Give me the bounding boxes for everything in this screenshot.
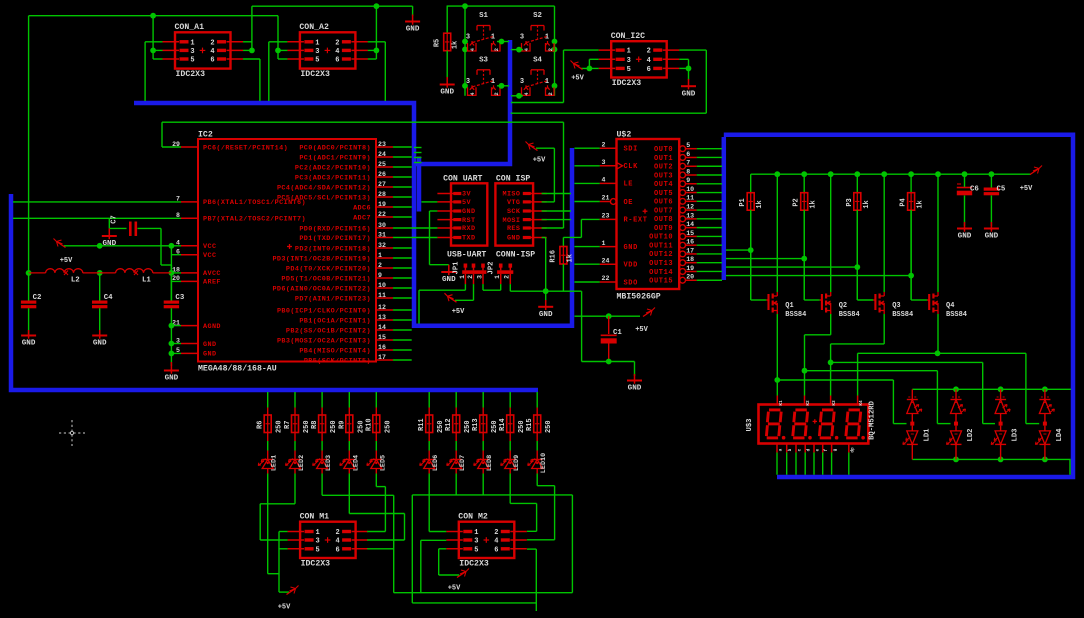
svg-text:7: 7: [686, 160, 690, 167]
svg-text:PC3(ADC3/PCINT11): PC3(ADC3/PCINT11): [295, 174, 371, 182]
svg-text:VCC: VCC: [203, 252, 216, 260]
svg-text:LED1: LED1: [271, 455, 279, 471]
svg-text:5: 5: [627, 66, 631, 74]
svg-text:R6: R6: [257, 421, 265, 429]
svg-text:IDC2X3: IDC2X3: [301, 559, 331, 568]
svg-text:250: 250: [464, 420, 472, 433]
svg-text:GND: GND: [203, 341, 216, 349]
svg-text:C2: C2: [33, 294, 42, 302]
svg-text:1: 1: [315, 529, 319, 537]
svg-text:OUT9: OUT9: [654, 225, 673, 233]
svg-text:16: 16: [378, 344, 386, 351]
svg-text:PB3(MOSI/OC2A/PCINT3): PB3(MOSI/OC2A/PCINT3): [277, 337, 371, 345]
svg-text:4: 4: [210, 48, 214, 56]
svg-text:C6: C6: [970, 186, 979, 194]
svg-text:SDI: SDI: [624, 146, 638, 154]
svg-text:+5V: +5V: [635, 326, 648, 334]
svg-text:C5: C5: [997, 186, 1006, 194]
svg-text:BQ-M512RD: BQ-M512RD: [869, 400, 877, 440]
svg-text:b: b: [788, 448, 793, 451]
svg-text:2: 2: [493, 47, 500, 51]
svg-text:4: 4: [602, 177, 606, 184]
svg-text:GND: GND: [507, 235, 520, 243]
svg-text:18: 18: [686, 256, 694, 263]
svg-text:Q2: Q2: [839, 302, 847, 310]
svg-text:GND: GND: [682, 90, 696, 98]
svg-text:GND: GND: [985, 233, 999, 241]
svg-text:C7: C7: [111, 215, 119, 223]
svg-text:+5V: +5V: [452, 308, 465, 316]
svg-text:5: 5: [190, 57, 194, 65]
svg-text:ADC6: ADC6: [353, 204, 371, 212]
svg-text:SDO: SDO: [624, 279, 638, 287]
svg-text:CON M1: CON M1: [300, 513, 330, 522]
svg-text:IDC2X3: IDC2X3: [612, 79, 642, 88]
svg-text:2: 2: [335, 39, 339, 47]
svg-text:R9: R9: [338, 421, 346, 429]
svg-text:10: 10: [686, 186, 694, 193]
svg-text:LED9: LED9: [513, 455, 521, 471]
svg-text:12: 12: [686, 203, 694, 210]
svg-text:CON_I2C: CON_I2C: [611, 32, 645, 41]
svg-text:PB7(XTAL2/TOSC2/PCINT7): PB7(XTAL2/TOSC2/PCINT7): [203, 216, 306, 224]
svg-text:PD2(INT0/PCINT18): PD2(INT0/PCINT18): [295, 245, 371, 253]
svg-text:PC1(ADC1/PCINT9): PC1(ADC1/PCINT9): [299, 154, 371, 162]
svg-text:2: 2: [494, 529, 498, 537]
svg-text:K3: K3: [832, 400, 837, 406]
svg-text:+5V: +5V: [448, 585, 461, 593]
svg-text:S2: S2: [533, 12, 542, 20]
svg-text:R8: R8: [311, 421, 319, 429]
svg-text:4: 4: [494, 538, 498, 546]
svg-text:GND: GND: [406, 26, 420, 34]
svg-text:MEGA48/88/168-AU: MEGA48/88/168-AU: [198, 364, 277, 374]
svg-text:LD2: LD2: [967, 429, 975, 442]
svg-text:Q1: Q1: [785, 302, 793, 310]
svg-text:IC2: IC2: [198, 131, 213, 140]
svg-text:CONN-ISP: CONN-ISP: [496, 251, 535, 260]
svg-text:C4: C4: [104, 294, 113, 302]
svg-text:250: 250: [357, 420, 365, 433]
svg-text:LD3: LD3: [1012, 429, 1020, 442]
svg-text:OUT4: OUT4: [654, 181, 673, 189]
svg-text:22: 22: [602, 275, 610, 282]
svg-text:24: 24: [378, 151, 386, 158]
svg-text:BSS84: BSS84: [785, 311, 806, 319]
svg-text:S4: S4: [533, 57, 542, 65]
svg-text:VTG: VTG: [507, 199, 520, 207]
svg-text:R12: R12: [445, 418, 453, 431]
svg-text:1: 1: [474, 529, 478, 537]
svg-text:CLK: CLK: [624, 163, 639, 171]
svg-text:P2: P2: [793, 198, 801, 206]
svg-text:12: 12: [378, 304, 386, 311]
svg-text:32: 32: [378, 242, 386, 249]
svg-text:OUT12: OUT12: [649, 251, 673, 259]
svg-text:PD3(INT1/OC2B/PCINT19): PD3(INT1/OC2B/PCINT19): [272, 255, 371, 263]
svg-text:1k: 1k: [452, 41, 460, 49]
svg-text:OUT5: OUT5: [654, 190, 673, 198]
svg-text:19: 19: [378, 201, 386, 208]
svg-text:R-EXT: R-EXT: [624, 217, 648, 225]
svg-text:AVCC: AVCC: [203, 270, 221, 278]
svg-text:1: 1: [602, 240, 606, 247]
svg-text:VCC: VCC: [203, 243, 216, 251]
svg-text:21: 21: [602, 195, 610, 202]
svg-text:PB2(SS/OC1B/PCINT2): PB2(SS/OC1B/PCINT2): [286, 327, 371, 335]
svg-text:c: c: [798, 448, 803, 451]
svg-text:250: 250: [330, 420, 338, 433]
svg-text:LED2: LED2: [298, 455, 306, 471]
svg-text:GND: GND: [165, 375, 179, 383]
svg-text:1: 1: [315, 39, 319, 47]
svg-text:OUT14: OUT14: [649, 269, 673, 277]
svg-text:GND: GND: [440, 89, 454, 97]
svg-text:CON_A1: CON_A1: [175, 23, 205, 32]
svg-text:Q3: Q3: [892, 302, 900, 310]
svg-text:S1: S1: [479, 12, 488, 20]
svg-text:5: 5: [315, 57, 319, 65]
svg-text:2: 2: [602, 141, 606, 148]
svg-text:g: g: [833, 448, 838, 451]
svg-text:JP2: JP2: [488, 262, 496, 275]
svg-text:26: 26: [378, 171, 386, 178]
svg-text:RST: RST: [462, 217, 475, 225]
svg-text:R15: R15: [526, 418, 534, 431]
svg-text:3: 3: [520, 34, 524, 42]
svg-text:CON_A2: CON_A2: [299, 23, 329, 32]
svg-text:OUT8: OUT8: [654, 216, 673, 224]
svg-text:24: 24: [602, 257, 610, 264]
svg-text:1: 1: [545, 34, 549, 42]
svg-text:OUT6: OUT6: [654, 199, 673, 207]
svg-text:3: 3: [627, 57, 631, 65]
svg-text:USB-UART: USB-UART: [447, 251, 486, 260]
svg-text:9: 9: [378, 272, 382, 279]
svg-text:d: d: [807, 448, 812, 451]
svg-text:4: 4: [523, 92, 530, 96]
svg-text:2: 2: [647, 48, 651, 56]
svg-text:CON UART: CON UART: [443, 174, 482, 183]
svg-text:GND: GND: [628, 385, 642, 393]
svg-text:IDC2X3: IDC2X3: [176, 70, 206, 79]
svg-text:AREF: AREF: [203, 279, 221, 287]
svg-text:4: 4: [335, 48, 339, 56]
svg-text:e: e: [816, 448, 821, 451]
svg-text:OUT0: OUT0: [654, 146, 673, 154]
svg-text:K1: K1: [779, 400, 784, 406]
svg-text:250: 250: [518, 420, 526, 433]
svg-text:6: 6: [647, 66, 651, 74]
svg-text:+5V: +5V: [533, 157, 546, 165]
svg-text:OUT13: OUT13: [649, 260, 673, 268]
svg-text:3V: 3V: [462, 191, 471, 199]
svg-text:1: 1: [491, 78, 495, 86]
svg-text:GND: GND: [462, 208, 475, 216]
svg-text:OUT11: OUT11: [649, 242, 673, 250]
svg-text:R16: R16: [550, 250, 558, 263]
svg-text:Q4: Q4: [946, 302, 954, 310]
svg-text:5V: 5V: [462, 199, 471, 207]
svg-text:1k: 1k: [810, 200, 818, 208]
svg-text:250: 250: [545, 420, 553, 433]
svg-text:6: 6: [686, 151, 690, 158]
svg-text:250: 250: [303, 420, 311, 433]
svg-text:BSS84: BSS84: [892, 311, 913, 319]
svg-text:OUT3: OUT3: [654, 172, 673, 180]
svg-text:1: 1: [459, 275, 466, 279]
svg-text:1: 1: [627, 48, 631, 56]
svg-text:250: 250: [276, 420, 284, 433]
svg-text:31: 31: [378, 231, 386, 238]
svg-text:R11: R11: [418, 418, 426, 431]
svg-text:PD1(TXD/PCINT17): PD1(TXD/PCINT17): [299, 235, 371, 243]
svg-text:GND: GND: [958, 233, 972, 241]
svg-text:CON ISP: CON ISP: [496, 174, 530, 183]
svg-text:250: 250: [437, 420, 445, 433]
svg-text:3: 3: [466, 78, 470, 86]
svg-text:13: 13: [378, 314, 386, 321]
svg-text:U$2: U$2: [617, 130, 632, 140]
svg-text:+5V: +5V: [60, 257, 73, 265]
svg-text:2: 2: [547, 92, 554, 96]
svg-text:3: 3: [315, 538, 319, 546]
svg-text:PC5(ADC5/SCL/PCINT13): PC5(ADC5/SCL/PCINT13): [277, 194, 371, 202]
svg-text:1k: 1k: [567, 254, 575, 262]
svg-text:19: 19: [686, 265, 694, 272]
svg-text:VDD: VDD: [624, 262, 638, 270]
svg-text:MISO: MISO: [502, 191, 520, 199]
svg-text:PB5(SCK/PCINT5): PB5(SCK/PCINT5): [304, 357, 371, 365]
svg-text:R13: R13: [472, 418, 480, 431]
svg-text:R14: R14: [499, 418, 507, 431]
svg-text:5: 5: [315, 546, 319, 554]
svg-text:4: 4: [335, 538, 339, 546]
svg-text:PB4(MISO/PCINT4): PB4(MISO/PCINT4): [299, 347, 371, 355]
svg-text:11: 11: [686, 195, 694, 202]
svg-text:2: 2: [493, 92, 500, 96]
svg-text:PB0(ICP1/CLKO/PCINT0): PB0(ICP1/CLKO/PCINT0): [277, 307, 371, 315]
svg-text:f: f: [824, 448, 829, 451]
svg-text:14: 14: [378, 324, 386, 331]
svg-text:P1: P1: [739, 198, 747, 206]
svg-text:a: a: [779, 448, 784, 451]
svg-text:dp: dp: [850, 447, 855, 453]
svg-text:10: 10: [378, 282, 386, 289]
svg-text:17: 17: [686, 247, 694, 254]
svg-text:R5: R5: [434, 39, 442, 47]
svg-text:14: 14: [686, 221, 694, 228]
svg-text:5: 5: [474, 546, 478, 554]
svg-text:6: 6: [494, 546, 498, 554]
svg-text:6: 6: [335, 57, 339, 65]
svg-text:BSS84: BSS84: [839, 311, 860, 319]
svg-text:PC4(ADC4/SDA/PCINT12): PC4(ADC4/SDA/PCINT12): [277, 184, 371, 192]
svg-text:SCK: SCK: [507, 208, 521, 216]
svg-text:TXD: TXD: [462, 235, 475, 243]
svg-text:2: 2: [504, 275, 511, 279]
svg-text:27: 27: [378, 181, 386, 188]
svg-text:MBI5026GP: MBI5026GP: [617, 293, 661, 302]
svg-text:U$3: U$3: [746, 419, 754, 432]
svg-text:GND: GND: [624, 244, 638, 252]
svg-text:R7: R7: [284, 421, 292, 429]
svg-text:+5V: +5V: [278, 604, 291, 612]
svg-text:PD7(AIN1/PCINT23): PD7(AIN1/PCINT23): [295, 295, 371, 303]
svg-text:AGND: AGND: [203, 323, 221, 331]
svg-text:28: 28: [378, 191, 386, 198]
svg-text:LD4: LD4: [1056, 428, 1064, 442]
svg-text:C3: C3: [175, 294, 184, 302]
svg-text:PB1(OC1A/PCINT1): PB1(OC1A/PCINT1): [299, 317, 371, 325]
svg-text:4: 4: [469, 92, 476, 96]
svg-text:GND: GND: [22, 340, 36, 348]
svg-text:L2: L2: [71, 277, 80, 285]
svg-text:GND: GND: [93, 340, 107, 348]
svg-text:LED6: LED6: [432, 455, 440, 471]
svg-text:CON M2: CON M2: [458, 513, 488, 522]
svg-text:LED4: LED4: [352, 455, 360, 471]
svg-text:LE: LE: [624, 181, 634, 189]
svg-text:1: 1: [190, 39, 194, 47]
svg-text:RES: RES: [507, 225, 520, 233]
svg-text:GND: GND: [442, 276, 456, 284]
svg-text:3: 3: [315, 48, 319, 56]
svg-text:3: 3: [476, 275, 483, 279]
svg-text:P3: P3: [846, 198, 854, 206]
svg-text:GND: GND: [203, 351, 216, 359]
svg-text:20: 20: [686, 274, 694, 281]
svg-text:1: 1: [491, 34, 495, 42]
svg-text:1: 1: [378, 252, 382, 259]
svg-text:16: 16: [686, 239, 694, 246]
svg-text:PD4(T0/XCK/PCINT20): PD4(T0/XCK/PCINT20): [286, 265, 371, 273]
svg-text:11: 11: [378, 292, 386, 299]
svg-text:6: 6: [210, 57, 214, 65]
svg-text:BSS84: BSS84: [946, 311, 967, 319]
svg-text:1k: 1k: [917, 200, 925, 208]
svg-text:PC6(/RESET/PCINT14): PC6(/RESET/PCINT14): [203, 144, 288, 152]
svg-text:PD0(RXD/PCINT16): PD0(RXD/PCINT16): [299, 225, 371, 233]
svg-text:OUT7: OUT7: [654, 207, 673, 215]
svg-text:P4: P4: [900, 198, 908, 206]
svg-text:15: 15: [686, 230, 694, 237]
svg-text:L1: L1: [142, 277, 151, 285]
svg-text:23: 23: [602, 213, 610, 220]
svg-text:1k: 1k: [756, 200, 764, 208]
svg-text:3: 3: [190, 48, 194, 56]
svg-text:OUT10: OUT10: [649, 234, 673, 242]
svg-text:9: 9: [686, 177, 690, 184]
svg-text:4: 4: [647, 57, 651, 65]
svg-text:250: 250: [384, 420, 392, 433]
svg-text:IDC2X3: IDC2X3: [459, 559, 489, 568]
svg-text:6: 6: [335, 546, 339, 554]
svg-text:LED10: LED10: [540, 453, 548, 473]
svg-text:LED3: LED3: [325, 455, 333, 471]
svg-text:5: 5: [686, 142, 690, 149]
svg-text:LD1: LD1: [923, 428, 931, 442]
svg-text:OUT15: OUT15: [649, 278, 673, 286]
svg-text:+5V: +5V: [571, 75, 584, 83]
svg-text:OUT2: OUT2: [654, 164, 673, 172]
svg-text:3: 3: [474, 538, 478, 546]
svg-text:OUT1: OUT1: [654, 155, 673, 163]
svg-text:PD6(AIN0/OC0A/PCINT22): PD6(AIN0/OC0A/PCINT22): [272, 285, 371, 293]
svg-text:K2: K2: [806, 400, 811, 406]
svg-text:4: 4: [469, 47, 476, 51]
svg-text:MOSI: MOSI: [502, 217, 520, 225]
svg-text:250: 250: [491, 420, 499, 433]
svg-text:LED7: LED7: [459, 455, 467, 471]
svg-text:22: 22: [378, 211, 386, 218]
svg-text:4: 4: [523, 47, 530, 51]
svg-text:8: 8: [686, 168, 690, 175]
svg-text:PC0(ADC0/PCINT8): PC0(ADC0/PCINT8): [299, 144, 371, 152]
svg-text:R10: R10: [365, 418, 373, 431]
svg-text:2: 2: [378, 262, 382, 269]
svg-text:2: 2: [210, 39, 214, 47]
svg-text:K4: K4: [859, 400, 864, 406]
svg-text:C1: C1: [613, 329, 622, 337]
svg-text:ADC7: ADC7: [353, 214, 371, 222]
svg-text:JP1: JP1: [453, 261, 461, 275]
svg-text:30: 30: [378, 222, 386, 229]
svg-text:13: 13: [686, 212, 694, 219]
svg-text:IDC2X3: IDC2X3: [300, 70, 330, 79]
svg-text:3: 3: [466, 34, 470, 42]
svg-text:LED8: LED8: [486, 455, 494, 471]
svg-text:17: 17: [378, 354, 386, 361]
svg-text:2: 2: [335, 529, 339, 537]
svg-text:+5V: +5V: [1020, 185, 1033, 193]
svg-text:S3: S3: [479, 57, 488, 65]
svg-text:PD5(T1/OC0B/PCINT21): PD5(T1/OC0B/PCINT21): [281, 275, 371, 283]
svg-text:25: 25: [378, 161, 386, 168]
svg-text:OE: OE: [624, 199, 634, 207]
svg-text:LED5: LED5: [379, 455, 387, 471]
svg-text:15: 15: [378, 334, 386, 341]
svg-text:GND: GND: [539, 311, 553, 319]
svg-text:2: 2: [467, 275, 474, 279]
svg-text:GND: GND: [102, 240, 116, 248]
svg-text:3: 3: [602, 159, 606, 166]
svg-text:1: 1: [545, 78, 549, 86]
svg-text:RXD: RXD: [462, 225, 475, 233]
svg-text:1: 1: [494, 275, 501, 279]
svg-text:1k: 1k: [863, 200, 871, 208]
svg-text:23: 23: [378, 141, 386, 148]
svg-text:3: 3: [520, 78, 524, 86]
svg-text:PC2(ADC2/PCINT10): PC2(ADC2/PCINT10): [295, 164, 371, 172]
